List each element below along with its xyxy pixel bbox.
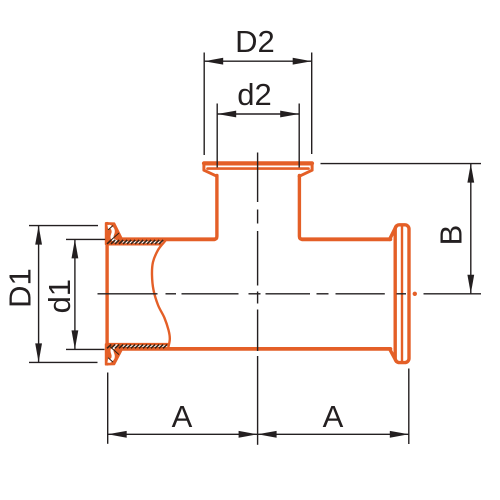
arrowhead B bottom	[467, 275, 474, 294]
arrowhead D1 top	[35, 226, 42, 245]
horizontal centerline of run	[98, 293, 158, 295]
top branch ferrule flange left chamfer	[204, 165, 217, 177]
dimension line D2	[204, 60, 312, 62]
break line (S-curve)	[152, 240, 170, 347]
extension line B top	[321, 163, 482, 165]
arrowhead A left outer	[108, 431, 127, 438]
svg-text:B: B	[434, 225, 469, 246]
extension line d2 right	[298, 104, 300, 168]
svg-text:D1: D1	[3, 268, 38, 308]
left ferrule end face	[105, 224, 108, 364]
centerline dot on right ferrule axis	[413, 292, 417, 296]
extension line A left	[107, 373, 109, 444]
dimension line A left	[108, 433, 258, 435]
svg-text:d1: d1	[42, 279, 77, 313]
extension line D2 right	[311, 53, 313, 155]
extension line D1 bottom	[29, 361, 98, 363]
run bore bottom line (sectioned part)	[108, 343, 167, 345]
right ferrule taper bottom	[390, 349, 397, 361]
arrowhead D2 right	[293, 58, 312, 65]
section hatching, run wall top	[107, 240, 163, 244]
top branch ferrule flange right chamfer	[299, 165, 312, 177]
branch tube right wall	[299, 176, 302, 240]
vertical centerline of branch	[257, 153, 259, 203]
right ferrule taper top	[390, 226, 397, 239]
arrowhead D2 left	[204, 58, 223, 65]
svg-text:D2: D2	[235, 24, 275, 59]
arrowhead A right outer	[390, 431, 409, 438]
svg-text:d2: d2	[237, 77, 271, 112]
run top outer line, left of branch	[121, 237, 215, 241]
extension line D1 top	[29, 225, 98, 227]
arrowhead d1 top	[72, 239, 79, 258]
arrowhead D1 bottom	[35, 343, 42, 362]
branch centerline extension to A dimension	[257, 356, 259, 445]
arrowhead B top	[467, 164, 474, 183]
svg-text:A: A	[172, 399, 193, 434]
left ferrule clamp lip, bottom (section)	[106, 344, 123, 365]
svg-text:A: A	[323, 399, 344, 434]
branch tube left wall	[214, 176, 217, 240]
dimension line d2	[217, 113, 299, 115]
run bore top line (sectioned part)	[108, 243, 161, 245]
left ferrule clamp lip, top (section)	[106, 223, 123, 244]
arrowhead A left inner	[239, 431, 258, 438]
arrowhead d2 left	[217, 111, 236, 118]
right ferrule flange groove line	[401, 227, 403, 361]
extension line A right	[408, 369, 410, 445]
dimension line A right	[258, 433, 409, 435]
extension line D2 left	[203, 53, 205, 156]
arrowhead A right inner	[258, 431, 277, 438]
extension line B bottom	[424, 293, 482, 295]
extension line d2 left	[216, 104, 218, 168]
top branch ferrule flange groove line	[208, 167, 309, 170]
dimension line D1	[38, 226, 40, 363]
extension line d1 bottom	[66, 348, 105, 350]
right ferrule flange outline	[395, 225, 409, 363]
dimension line d1	[74, 239, 76, 349]
arrowhead d1 bottom	[72, 330, 79, 349]
arrowhead d2 right	[280, 111, 299, 118]
section hatching, run wall bottom	[107, 344, 167, 348]
dimension line B	[470, 164, 472, 294]
top branch ferrule flange face	[204, 161, 312, 165]
extension line d1 top	[66, 238, 105, 240]
run bottom outer line	[121, 347, 391, 351]
run top outer line, right of branch	[302, 237, 390, 241]
